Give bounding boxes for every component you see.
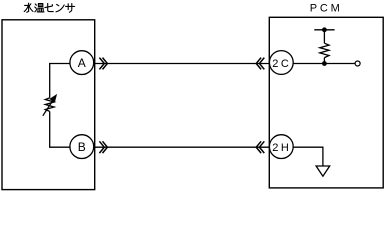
wire from thermistor to terminal B [50,111,70,147]
connector chevrons at PCM side row 1 [256,58,264,70]
terminal A [70,51,94,75]
PCM box [269,17,383,188]
connector chevrons at sensor side row 1 [99,58,107,70]
connector chevrons at sensor side row 2 [99,141,107,153]
wire 2C to open terminal [293,63,355,65]
junction dot at wire [322,61,327,66]
水 [27,3,29,12]
junction dot at rail [322,27,327,32]
ン [57,4,59,5]
thermistor arrow [43,95,57,116]
connector chevrons at PCM side row 2 [256,141,264,153]
power rail bar [314,29,334,31]
wire 2H to ground [293,147,323,166]
svg-text:PCM: PCM [310,3,343,15]
svg-text:2C: 2C [272,58,291,70]
terminal 2H [269,135,293,159]
ground symbol [316,166,330,176]
thermistor (variable resistor) [45,98,54,112]
open terminal (circle) [355,61,360,66]
wire from terminal A to thermistor branch [50,64,70,98]
terminal 2C [269,51,293,75]
wire B to 2H [94,146,270,148]
サ [66,4,75,13]
セ [48,3,54,11]
svg-text:2H: 2H [272,142,291,154]
left box (water temp sensor) [2,20,95,190]
wire A to 2C [94,63,270,65]
terminal B [70,135,94,159]
pull-up resistor R [320,30,329,64]
温 [35,4,37,12]
svg-text:A: A [78,56,86,70]
svg-text:B: B [78,140,86,154]
label 水温センサ [24,3,74,12]
